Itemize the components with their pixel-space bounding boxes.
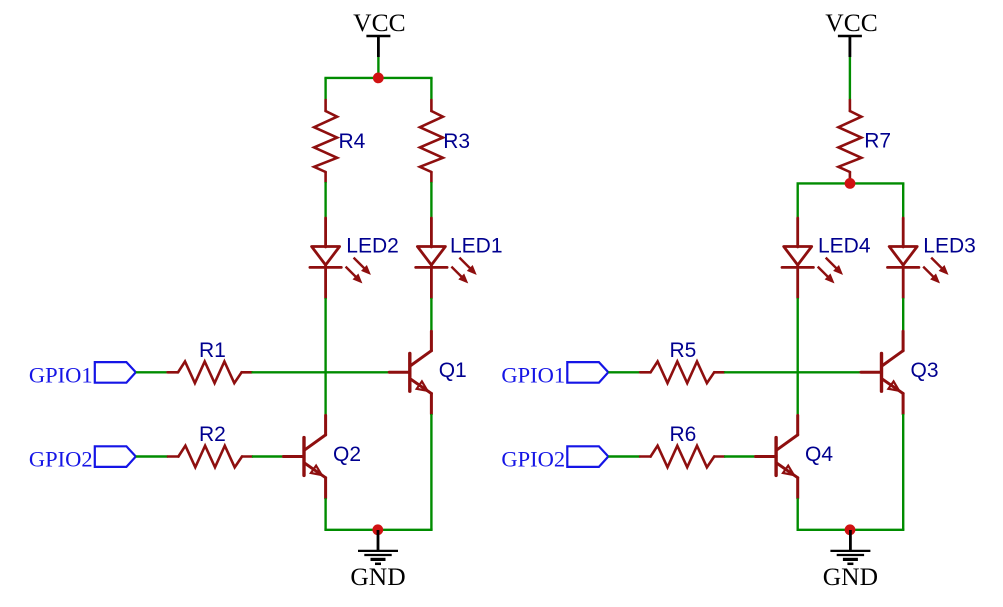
wire bottom rail (right) — [797, 529, 905, 531]
wire GPIO2 label to R2 — [136, 455, 168, 457]
svg-text:LED4: LED4 — [818, 234, 871, 257]
svg-text:GND: GND — [350, 562, 405, 591]
svg-text:Q1: Q1 — [439, 359, 467, 382]
wire LED3 to Q3 collector — [902, 298, 904, 331]
svg-text:Q2: Q2 — [333, 443, 361, 466]
wire top rail (right) — [797, 182, 905, 184]
wire GPIO1 label to R1 — [136, 371, 168, 373]
svg-text:R6: R6 — [670, 423, 697, 446]
svg-text:LED1: LED1 — [450, 234, 503, 257]
wire Q3 emitter to bottom rail — [902, 414, 904, 530]
wire GPIO1 label to R5 — [608, 371, 640, 373]
transistor Q4 — [756, 415, 798, 498]
svg-text:VCC: VCC — [825, 8, 877, 37]
wire R1 to Q1 base — [252, 371, 390, 373]
wire top rail (left) — [324, 77, 432, 79]
wire R2 to Q2 base — [252, 455, 284, 457]
LED LED1 — [416, 218, 447, 298]
svg-text:Q3: Q3 — [911, 359, 939, 382]
LED LED2 — [310, 218, 341, 298]
resistor R6 — [640, 446, 724, 468]
svg-text:R1: R1 — [199, 339, 226, 362]
global label GPIO1 (right) — [567, 362, 608, 383]
wire R3 to LED1 — [430, 182, 432, 218]
junction node GND rail (right) — [845, 524, 856, 535]
svg-text:R7: R7 — [864, 130, 891, 153]
LED LED3 — [888, 218, 919, 298]
power symbol GND (left) — [358, 530, 398, 564]
wire bottom rail (left) — [324, 529, 432, 531]
wire Q2 emitter to bottom rail — [324, 498, 326, 530]
LED LED4 — [782, 218, 813, 298]
resistor R5 — [640, 362, 724, 384]
emission arrows of LED1 — [451, 258, 475, 283]
svg-text:GPIO2: GPIO2 — [29, 447, 93, 472]
wire rail to R3 — [430, 78, 432, 100]
junction node VCC rail (left) — [373, 73, 384, 84]
transistor Q1 — [389, 331, 431, 414]
svg-text:GPIO2: GPIO2 — [501, 447, 565, 472]
wire VCC to R7 — [849, 57, 851, 100]
global label GPIO2 (left) — [95, 446, 136, 467]
wire Q1 emitter to bottom rail — [430, 414, 432, 530]
svg-text:R5: R5 — [670, 339, 697, 362]
svg-text:LED2: LED2 — [346, 234, 399, 257]
wire LED4 to Q4 collector — [797, 298, 799, 415]
wire VCC stub (left) — [377, 57, 379, 78]
svg-text:R3: R3 — [443, 130, 470, 153]
power symbol VCC (left) — [366, 36, 390, 57]
emission arrows of LED3 — [923, 258, 947, 283]
power symbol GND (right) — [830, 530, 870, 564]
global label GPIO2 (right) — [567, 446, 608, 467]
power symbol VCC (right) — [838, 36, 862, 57]
svg-text:GPIO1: GPIO1 — [501, 362, 565, 387]
resistor R1 — [168, 362, 252, 384]
wire LED1 to Q1 collector — [430, 298, 432, 331]
resistor R2 — [168, 446, 252, 468]
svg-text:R4: R4 — [339, 130, 366, 153]
transistor Q3 — [861, 331, 903, 414]
junction node R7 rail (right) — [845, 178, 856, 189]
emission arrows of LED2 — [346, 258, 370, 283]
resistor R7 — [838, 100, 861, 183]
wire GPIO2 label to R6 — [608, 455, 640, 457]
wire R5 to Q3 base — [724, 371, 861, 373]
svg-text:R2: R2 — [199, 423, 226, 446]
svg-text:GND: GND — [823, 562, 878, 591]
resistor R4 — [314, 100, 337, 182]
svg-text:LED3: LED3 — [923, 234, 976, 257]
transistor Q2 — [283, 415, 325, 498]
wire LED2 to Q2 collector — [324, 298, 326, 415]
wire R4 to LED2 — [324, 182, 326, 218]
wire R6 to Q4 base — [724, 455, 756, 457]
svg-text:VCC: VCC — [353, 8, 405, 37]
junction node GND rail (left) — [372, 524, 383, 535]
wire rail to LED3 — [902, 183, 904, 218]
svg-text:Q4: Q4 — [805, 443, 833, 466]
wire rail to R4 — [324, 78, 326, 100]
svg-text:GPIO1: GPIO1 — [29, 362, 93, 387]
resistor R3 — [420, 100, 443, 182]
global label GPIO1 (left) — [95, 362, 136, 383]
wire Q4 emitter to bottom rail — [797, 498, 799, 530]
wire rail to LED4 — [797, 183, 799, 218]
emission arrows of LED4 — [818, 258, 842, 283]
